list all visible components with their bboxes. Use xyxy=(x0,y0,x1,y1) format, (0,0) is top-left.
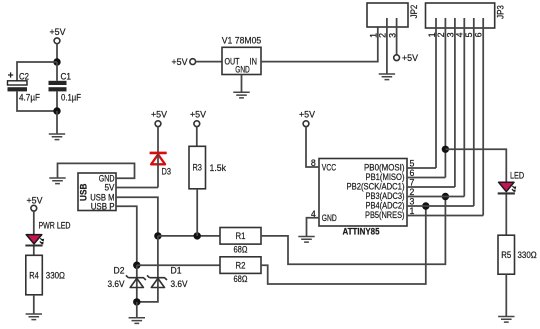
JP3 pin 5 wire to PB4 xyxy=(464,18,474,206)
svg-text:1: 1 xyxy=(410,206,415,216)
capacitor C2 4.7uF (polarized) xyxy=(8,72,41,104)
svg-text:PB0(MOSI): PB0(MOSI) xyxy=(364,162,405,172)
junction C1/C2 bottom xyxy=(53,107,60,114)
USB connector xyxy=(78,173,116,211)
svg-text:PB2(SCK/ADC1): PB2(SCK/ADC1) xyxy=(347,181,405,191)
wire data junction to R1 xyxy=(158,235,220,237)
svg-text:GND: GND xyxy=(235,65,250,75)
svg-text:2: 2 xyxy=(410,187,415,197)
wire USB M down to data junction xyxy=(116,197,158,236)
wire +5V to VCC pin 8 xyxy=(306,127,319,167)
wire V1 IN to JP2 pin 1 xyxy=(261,18,378,62)
svg-text:4.7µF: 4.7µF xyxy=(19,93,40,104)
resistor R5 330 ohm xyxy=(498,235,537,274)
diode D3 (red) xyxy=(150,153,171,188)
wire V1 OUT to +5V xyxy=(196,61,222,63)
wire R1 to PB3 junction xyxy=(261,197,445,265)
wire R5 to ground xyxy=(505,274,507,316)
zener diode D1 3.6V xyxy=(147,266,188,290)
wire D1 anode to ground rail xyxy=(137,288,158,302)
resistor R2 68 ohm xyxy=(220,257,261,284)
svg-text:1.5k: 1.5k xyxy=(210,163,227,174)
wire PB1 pin 6 to JP3 pin 2 xyxy=(407,168,445,178)
svg-text:7: 7 xyxy=(410,177,415,187)
svg-text:+5V: +5V xyxy=(172,57,189,68)
wire junction to D2 cathode xyxy=(136,265,138,302)
wire junction to ground xyxy=(56,111,58,134)
wire PB3 pin 2 to JP3 pin 4 xyxy=(407,187,464,197)
svg-text:VCC: VCC xyxy=(322,162,337,172)
LED PWR (red LED) xyxy=(25,235,44,246)
svg-text:C1: C1 xyxy=(61,72,72,83)
node +5V (JP2 pin 3) xyxy=(394,53,419,64)
svg-text:LED: LED xyxy=(510,171,524,181)
svg-text:R4: R4 xyxy=(29,270,39,280)
svg-text:+5V: +5V xyxy=(190,110,207,121)
svg-text:GND: GND xyxy=(322,213,337,223)
wire PWR LED to R4 xyxy=(33,247,35,256)
JP2 pin 3 xyxy=(387,18,397,55)
wire junction to C2 top xyxy=(17,62,57,81)
wire C2 bottom to bottom junction xyxy=(17,91,57,111)
junction C1/C2 top xyxy=(53,58,60,65)
svg-text:USB P: USB P xyxy=(91,201,115,211)
JP3 pin 6 wire to PB5 xyxy=(473,18,483,216)
svg-text:+5V: +5V xyxy=(151,110,168,121)
ground (JP2 pin 2) xyxy=(379,74,395,80)
svg-text:PB5(NRES): PB5(NRES) xyxy=(365,210,405,220)
svg-text:R3: R3 xyxy=(192,163,202,173)
svg-text:3.6V: 3.6V xyxy=(108,279,125,289)
junction USB P / D2 / R2 xyxy=(133,262,140,269)
capacitor C1 0.1uF xyxy=(49,72,82,104)
node +5V (D3) xyxy=(151,110,168,127)
junction PB3 / R1 xyxy=(442,193,449,200)
wire USB P down to data junction xyxy=(116,206,137,265)
JP3 pin 1 wire to PB0 xyxy=(427,18,437,168)
ground (filter capacitors) xyxy=(49,134,65,140)
wire PB5 pin 1 to JP3 pin 6 xyxy=(407,206,483,216)
JP2 pin 2 xyxy=(378,18,388,74)
zener diode D2 3.6V xyxy=(108,266,146,290)
resistor R1 68 ohm xyxy=(220,228,261,255)
svg-text:IN: IN xyxy=(250,57,258,67)
svg-text:+5V: +5V xyxy=(50,27,67,38)
svg-text:USB: USB xyxy=(79,184,89,201)
wire junction to ground xyxy=(136,302,138,318)
resistor R4 330 ohm xyxy=(26,255,66,294)
svg-text:PB3(ADC3): PB3(ADC3) xyxy=(366,191,405,201)
wire R2 to PB4 junction xyxy=(261,206,426,284)
wire +5V to R3 xyxy=(196,127,198,147)
svg-text:3.6V: 3.6V xyxy=(171,279,188,289)
svg-text:68Ω: 68Ω xyxy=(234,245,248,255)
resistor R3 1.5k xyxy=(189,146,226,189)
svg-text:8: 8 xyxy=(311,158,316,168)
svg-text:R2: R2 xyxy=(236,260,246,270)
junction PB1 / LED branch xyxy=(442,146,449,153)
wire +5V circle down to cap junction xyxy=(56,44,58,62)
svg-text:0.1µF: 0.1µF xyxy=(61,93,81,104)
svg-text:R1: R1 xyxy=(236,231,246,241)
svg-text:2: 2 xyxy=(378,33,388,38)
wire junction to LED xyxy=(445,149,506,182)
wire +5V to PWR LED xyxy=(33,211,35,235)
ground (IC) xyxy=(298,237,314,243)
connector JP3 xyxy=(426,3,507,28)
svg-text:D3: D3 xyxy=(162,167,172,178)
wire junction to D1 cathode xyxy=(157,236,159,288)
svg-text:D2: D2 xyxy=(114,266,125,276)
JP3 pin 3 wire to PB2 xyxy=(445,18,455,187)
svg-text:+5V: +5V xyxy=(402,53,419,64)
wire GND pin 4 to ground xyxy=(307,218,320,237)
svg-text:5: 5 xyxy=(410,158,415,168)
junction R3 bottom xyxy=(194,232,201,239)
IC ATTINY85 xyxy=(319,159,407,238)
ground (V1) xyxy=(233,92,249,98)
wire PB4 pin 3 to JP3 pin 5 xyxy=(407,196,474,206)
svg-text:JP3: JP3 xyxy=(496,5,507,19)
svg-text:3: 3 xyxy=(410,196,415,206)
svg-text:JP2: JP2 xyxy=(409,5,420,19)
svg-text:68Ω: 68Ω xyxy=(234,274,248,284)
junction PB4 / R2 xyxy=(422,202,429,209)
wire R4 to ground xyxy=(33,295,35,314)
ground (D1/D2) xyxy=(129,318,145,324)
ground (R4) xyxy=(26,314,42,320)
svg-text:PB1(MISO): PB1(MISO) xyxy=(366,172,405,182)
svg-text:330Ω: 330Ω xyxy=(518,250,538,260)
voltage regulator V1 78M05 xyxy=(222,36,262,75)
ground (R5) xyxy=(498,317,514,323)
wire USB 5V to D3 xyxy=(116,187,158,189)
svg-text:330Ω: 330Ω xyxy=(46,270,66,280)
svg-text:R5: R5 xyxy=(501,250,511,260)
wire C1 bottom to junction xyxy=(56,91,58,111)
svg-text:PWR LED: PWR LED xyxy=(39,221,71,231)
wire PB0 pin 5 to JP3 pin 1 xyxy=(407,158,436,168)
svg-text:3: 3 xyxy=(387,33,397,38)
wire +5V to D3 anode xyxy=(157,127,159,153)
svg-text:5V: 5V xyxy=(105,183,115,193)
junction USB M / D1 / R1 xyxy=(154,232,161,239)
svg-text:C2: C2 xyxy=(19,72,29,83)
svg-text:6: 6 xyxy=(473,32,483,37)
JP3 pin 2 wire to PB1 xyxy=(436,18,446,178)
svg-text:V1 78M05: V1 78M05 xyxy=(222,36,262,47)
wire V1 GND to ground xyxy=(241,75,243,93)
svg-text:PB4(ADC2): PB4(ADC2) xyxy=(366,200,405,210)
svg-text:D1: D1 xyxy=(171,266,182,276)
svg-text:+5V: +5V xyxy=(299,110,316,121)
svg-text:ATTINY85: ATTINY85 xyxy=(343,227,381,238)
ground (USB GND) xyxy=(49,178,65,184)
connector JP2 xyxy=(367,3,420,27)
node +5V (R3 pullup) xyxy=(190,110,207,127)
node +5V (PWR LED) xyxy=(27,196,44,212)
wire USB GND to ground xyxy=(58,163,135,178)
node +5V (VCC) xyxy=(299,110,316,127)
node +5V (filter capacitor rail) xyxy=(50,27,67,44)
wire PB2 pin 7 to JP3 pin 3 xyxy=(407,177,455,187)
wire junction to C1 top xyxy=(56,62,58,81)
svg-text:6: 6 xyxy=(410,168,415,178)
LED (indicator) xyxy=(498,182,517,193)
wire R3 to junction xyxy=(196,189,198,236)
node +5V (V1 output) xyxy=(172,57,196,68)
junction D1/D2 ground xyxy=(133,298,140,305)
wire data junction to R2 xyxy=(137,264,220,266)
JP3 pin 4 wire to PB3 xyxy=(455,18,465,197)
wire LED to R5 xyxy=(505,194,507,235)
